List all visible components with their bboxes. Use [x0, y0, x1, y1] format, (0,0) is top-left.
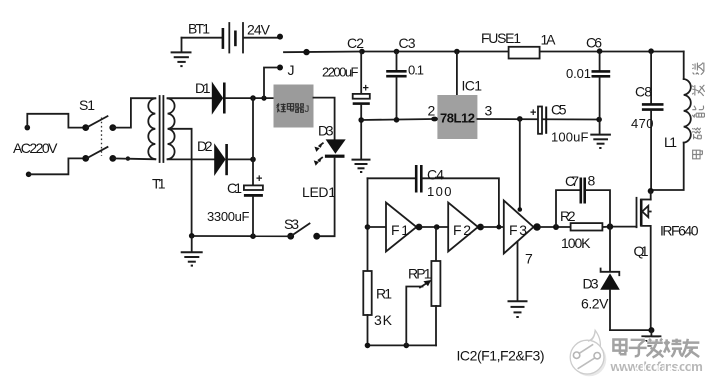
svg-text:+: + [530, 107, 536, 119]
wire C8 into drain node down [650, 191, 652, 200]
svg-text:S1: S1 [79, 97, 95, 113]
node wiper bottom junction [404, 343, 410, 349]
op-amp F2 inverter [448, 203, 484, 252]
wire IC1 feed vertical [456, 52, 458, 96]
switch S1 [79, 97, 130, 162]
svg-text:100uF: 100uF [551, 130, 589, 145]
capacitor C2 [322, 35, 370, 159]
svg-text:J: J [288, 62, 295, 78]
node antenna label vertical text [692, 63, 704, 159]
node C8 top junction [648, 48, 654, 54]
svg-text:100K: 100K [561, 235, 591, 251]
svg-text:C6: C6 [586, 35, 602, 51]
svg-text:L1: L1 [664, 134, 677, 150]
watermark logo balloon [570, 330, 606, 376]
node C1 rail junction [250, 233, 256, 239]
inductor L1 [651, 52, 691, 191]
wire bottom-left rail [192, 235, 291, 237]
svg-text:C3: C3 [399, 35, 416, 51]
resistor R1 [363, 271, 392, 345]
node source junction [648, 327, 654, 333]
svg-text:R2: R2 [560, 208, 576, 224]
ground under F3 [508, 301, 528, 317]
node gate junction [607, 223, 613, 229]
svg-text:D2: D2 [197, 138, 213, 154]
svg-text:C1: C1 [227, 180, 242, 196]
svg-text:1A: 1A [541, 32, 557, 48]
node RP1 top junction [434, 224, 440, 230]
svg-text:0.01: 0.01 [566, 66, 591, 81]
op-amp F1 inverter [386, 203, 422, 252]
transformer T1 [148, 96, 174, 192]
svg-text:D3: D3 [318, 123, 334, 139]
capacitor C3 [386, 35, 424, 120]
diode D1 [195, 80, 224, 115]
wire rectifier rail down to C1 [252, 98, 254, 185]
svg-text:C5: C5 [551, 102, 567, 118]
capacitor C4 [368, 165, 499, 227]
svg-text:C8: C8 [635, 83, 652, 99]
svg-text:IRF640: IRF640 [660, 223, 699, 239]
node R1 bottom junction [365, 343, 371, 349]
svg-text:RP1: RP1 [408, 266, 432, 282]
node F1 input junction [365, 224, 371, 230]
svg-text:2200uF: 2200uF [322, 65, 359, 80]
svg-text:470: 470 [631, 116, 654, 131]
node contact arm junction [303, 49, 309, 55]
fuse FUSE1 [481, 30, 556, 59]
wire secondary bottom to D2 [168, 158, 215, 160]
ground under C2 [352, 160, 371, 172]
svg-text:FUSE1: FUSE1 [481, 30, 521, 46]
potentiometer RP1 [406, 227, 440, 345]
node pin3 junction [517, 116, 523, 122]
svg-text:www.elecfans.com: www.elecfans.com [610, 359, 704, 374]
ground under Q1 [641, 336, 661, 349]
svg-text:0.1: 0.1 [408, 63, 424, 78]
node C2 top junction [359, 49, 365, 55]
node C2 lower rail junction [358, 117, 364, 123]
wire relay contact arm to top rail [284, 51, 362, 54]
wire F1 input [368, 226, 387, 228]
capacitor C1 [207, 173, 263, 236]
LED D3 [302, 123, 346, 201]
wire pin3 output [477, 118, 599, 121]
battery BT1 [182, 20, 278, 52]
diode D2 [197, 138, 227, 176]
wire R2 to gate node [602, 226, 610, 228]
wire AC top lead [27, 114, 85, 128]
svg-text:+: + [256, 173, 262, 185]
ground bottom-left [181, 252, 203, 265]
node C7 left junction [553, 224, 559, 230]
svg-text:LED1: LED1 [302, 184, 336, 200]
wire top rail C2 to L1 corner [362, 51, 684, 53]
svg-text:6.2V: 6.2V [581, 296, 609, 312]
svg-text:R1: R1 [376, 286, 392, 302]
wire lower rail to pin2 [361, 119, 433, 120]
node IC1 feed junction [454, 49, 460, 55]
svg-text:8: 8 [588, 173, 596, 189]
node C6 top junction [597, 48, 603, 54]
wire R1 RP1 bottom rail [368, 344, 437, 346]
svg-text:+: + [363, 83, 369, 95]
svg-text:2: 2 [428, 103, 436, 119]
node center tap rail junction [189, 233, 195, 239]
wire F2 out to F3 [483, 226, 504, 228]
svg-text:Q1: Q1 [634, 243, 649, 259]
node J branch junction [261, 96, 266, 101]
node D1 junction [250, 95, 256, 101]
svg-text:3K: 3K [374, 312, 393, 328]
svg-text:78L12: 78L12 [440, 111, 475, 126]
op-amp U1 regulator 78L12 [428, 77, 493, 139]
wire F3 pin7 ground lead [517, 242, 519, 300]
svg-text:3: 3 [485, 103, 493, 119]
wire AC bottom lead [29, 158, 86, 174]
capacitor C5 [530, 102, 589, 145]
switch S3 [284, 216, 320, 240]
node C3 top junction [394, 49, 400, 55]
relay U relay box [274, 85, 314, 128]
node C3 lower rail junction [394, 117, 400, 123]
wire LED cathode down to S3 [317, 158, 335, 236]
node C5 right junction [596, 117, 602, 123]
ground battery [171, 52, 192, 66]
op-amp F3 inverter [504, 201, 541, 267]
wire F1 out to F2 [421, 226, 448, 228]
svg-text:S3: S3 [284, 216, 299, 232]
wire J coil branch [264, 68, 277, 99]
wire source node to ground [650, 330, 652, 335]
wire S1 top to transformer [113, 98, 156, 127]
watermark text elecfans [613, 339, 699, 358]
node D2 junction [250, 157, 256, 163]
wire gate lead [610, 226, 637, 228]
svg-text:100: 100 [427, 184, 452, 199]
wire D2 cathode to rail [228, 158, 253, 160]
node C4 right junction [496, 225, 501, 230]
svg-text:AC220V: AC220V [13, 140, 58, 156]
svg-text:24V: 24V [247, 21, 271, 37]
wire D1 cathode to relay [226, 97, 274, 99]
wire rail to ground stub [191, 236, 193, 252]
svg-text:C4: C4 [427, 167, 444, 183]
wire secondary top to D1 [168, 97, 212, 99]
node AC220V source terminals [13, 125, 58, 177]
wire relay output [314, 98, 335, 140]
svg-text:T1: T1 [152, 176, 166, 192]
svg-text:D3: D3 [583, 276, 599, 292]
svg-text:J: J [305, 104, 310, 115]
svg-text:D1: D1 [195, 80, 211, 96]
node F3 top junction [518, 207, 523, 212]
svg-text:IC2(F1,F2&F3): IC2(F1,F2&F3) [457, 348, 545, 364]
node relay contact J side [277, 62, 295, 78]
resistor R2 [560, 208, 602, 251]
capacitor C7 [556, 173, 610, 228]
svg-text:7: 7 [525, 251, 533, 267]
svg-text:C2: C2 [347, 35, 364, 51]
node relay contact battery side [277, 34, 283, 40]
svg-text:3300uF: 3300uF [207, 209, 250, 224]
zener D3 [581, 227, 620, 331]
ground under C5 C6 [590, 135, 611, 148]
svg-text:BT1: BT1 [188, 20, 210, 36]
wire secondary center tap [172, 129, 192, 236]
capacitor C6 [566, 35, 610, 134]
wire S1 bottom to transformer [113, 157, 156, 160]
transistor Q1 IRF640 [634, 198, 699, 330]
svg-text:IC1: IC1 [462, 77, 483, 93]
node drain junction [648, 188, 654, 194]
wire F3 out to R2 [540, 226, 571, 228]
wire source rail [610, 329, 651, 331]
svg-text:C7: C7 [565, 173, 579, 189]
capacitor C8 [631, 52, 664, 192]
wire F1 left rail [367, 178, 369, 271]
wire F3 power feed [519, 119, 521, 210]
